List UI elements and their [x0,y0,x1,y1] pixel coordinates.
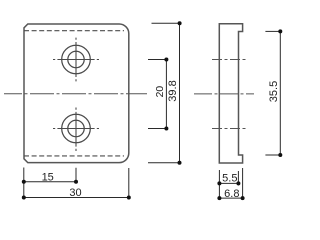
svg-text:39.8: 39.8 [167,80,179,101]
svg-text:35.5: 35.5 [268,81,280,102]
svg-text:15: 15 [42,172,54,184]
svg-text:6.8: 6.8 [224,188,239,200]
svg-text:30: 30 [69,187,81,199]
svg-text:20: 20 [155,86,166,98]
svg-text:5.5: 5.5 [222,172,237,184]
